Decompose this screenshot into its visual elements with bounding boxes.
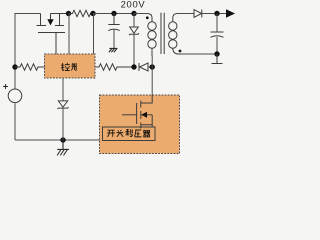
wire to output node <box>202 13 226 15</box>
wire node2 down to control box <box>93 14 95 55</box>
diode D2 (output rectifier) <box>194 10 202 18</box>
node 200V <box>131 11 136 16</box>
ground hatch under C1 <box>109 48 117 52</box>
capacitor C2 <box>216 14 218 33</box>
label 开关稳压器 drawn strokes <box>107 129 150 137</box>
wire secondary top <box>178 13 195 15</box>
control box U1 <box>45 54 96 78</box>
wire top bus <box>93 13 134 15</box>
resistor R2 <box>15 64 45 70</box>
node bottom <box>60 137 65 142</box>
wire D1 to node B <box>148 66 152 68</box>
AC source V1 <box>8 89 22 103</box>
wire node B down to regulator <box>151 67 153 95</box>
plus sign <box>4 85 8 89</box>
wire node1 down to control box <box>68 14 70 55</box>
node A <box>131 64 136 69</box>
transistor Q1 (P-MOSFET top-left) <box>37 14 69 55</box>
wire left rail bottom <box>14 103 16 140</box>
node left rail feedback <box>12 64 17 69</box>
node output <box>214 11 219 16</box>
zener diode Z1 <box>133 14 135 28</box>
diode D1 (pointing left) <box>139 63 148 71</box>
wire bottom horizontal <box>15 139 103 141</box>
label box <box>103 127 156 141</box>
wire secondary bottom <box>181 53 217 55</box>
node B <box>150 64 155 69</box>
wire bus to transformer <box>134 13 147 15</box>
wire left rail top <box>15 14 41 90</box>
svg-text:200V: 200V <box>121 0 146 10</box>
label 控制 (control) drawn strokes <box>61 63 76 71</box>
primary phasing dot <box>146 16 149 19</box>
ground hatch under node bottom <box>57 140 68 155</box>
ground bar right <box>212 54 223 64</box>
wire node B up to primary <box>151 56 153 67</box>
transistor Q2 (N-MOSFET inside) <box>122 95 152 129</box>
output arrow <box>226 9 235 18</box>
transformer T1 primary coil <box>147 14 156 57</box>
node top-2 <box>90 11 95 16</box>
switching regulator box U2 <box>100 95 180 154</box>
node top-1 <box>66 11 71 16</box>
resistor R1 (top) <box>69 10 93 16</box>
transformer T1 secondary coil <box>169 14 181 55</box>
zener diode Z2 <box>62 78 64 101</box>
capacitor C1 <box>108 14 119 25</box>
node top-3 <box>111 11 116 16</box>
transformer core <box>161 13 164 54</box>
resistor R3 <box>95 64 134 70</box>
secondary phasing dot <box>179 50 182 53</box>
node secondary ground <box>214 51 219 56</box>
